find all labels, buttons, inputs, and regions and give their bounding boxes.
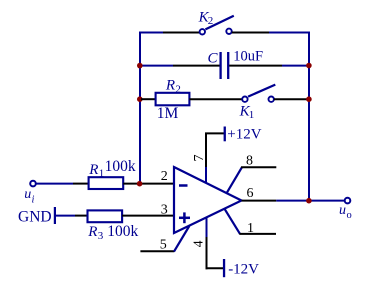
pin 6 output wire <box>242 200 345 202</box>
resistor R3 <box>88 210 123 222</box>
svg-text:i: i <box>32 195 35 206</box>
label 100k R3 <box>107 223 138 240</box>
op-amp plus sign <box>179 212 190 223</box>
pin 7 label <box>192 155 207 162</box>
pin 4 wire <box>206 217 224 269</box>
resistor R2 <box>156 93 190 106</box>
svg-text:5: 5 <box>160 238 167 253</box>
ground bar <box>54 207 56 224</box>
svg-text:1M: 1M <box>157 105 179 122</box>
wire: R2 to K1 <box>189 98 242 100</box>
svg-text:3: 3 <box>98 230 104 242</box>
op-amp U1 triangle <box>174 167 242 233</box>
svg-text:C: C <box>208 51 219 67</box>
terminal uo <box>345 198 351 204</box>
capacitor C <box>221 52 229 79</box>
svg-text:GND: GND <box>18 208 52 225</box>
svg-text:R: R <box>87 224 97 240</box>
label K2 <box>198 9 214 27</box>
label uo <box>339 203 352 221</box>
label 10uF <box>233 49 263 65</box>
label R2 <box>165 78 181 96</box>
svg-text:4: 4 <box>190 240 205 247</box>
label 100k R1 <box>105 158 136 175</box>
wire: capacitor row right segment <box>229 65 309 67</box>
svg-text:+12V: +12V <box>227 127 261 143</box>
svg-text:100k: 100k <box>105 158 136 175</box>
node: junction left-capacitor <box>137 63 143 69</box>
node: junction right-R2K1 <box>306 96 312 102</box>
power +12V bar <box>224 127 226 142</box>
wire: left vertical feedback branch <box>139 32 141 185</box>
svg-text:2: 2 <box>175 84 181 96</box>
wire: R1 to op-amp pin2 <box>123 183 174 185</box>
pin 5 label <box>160 238 167 253</box>
pin 2 label <box>161 169 168 184</box>
svg-text:o: o <box>347 210 352 221</box>
wire: right vertical feedback branch <box>308 32 310 202</box>
pin 5 wire <box>140 226 189 252</box>
op-amp minus sign <box>179 184 188 187</box>
wire: ui to R1 <box>36 183 89 185</box>
label -12V <box>228 262 259 278</box>
svg-text:1: 1 <box>247 221 254 236</box>
label ui <box>24 187 34 205</box>
pin 6 label <box>247 186 254 201</box>
svg-text:R: R <box>88 162 98 178</box>
node: junction summing point <box>137 181 143 187</box>
label K1 <box>239 103 255 121</box>
label 1M <box>157 105 179 122</box>
wire: left to R2 <box>141 98 156 100</box>
svg-text:1: 1 <box>249 109 255 121</box>
pin 8 wire <box>226 167 276 194</box>
resistor R1 <box>89 177 124 189</box>
svg-text:u: u <box>24 187 31 202</box>
node: junction output <box>306 198 312 204</box>
pin 1 label <box>247 221 254 236</box>
pin 8 label <box>246 154 253 169</box>
svg-text:3: 3 <box>161 203 168 218</box>
label +12V <box>227 127 261 143</box>
pin 3 label <box>161 203 168 218</box>
pin 1 wire <box>225 209 276 234</box>
wire: top row right segment <box>232 32 310 34</box>
svg-text:R: R <box>165 78 175 94</box>
svg-text:u: u <box>339 203 346 218</box>
switch K2 <box>200 16 234 35</box>
label GND <box>18 208 52 225</box>
wire: R3 to op-amp pin3 <box>122 215 174 217</box>
label R3 <box>87 224 104 242</box>
node: junction left-R2 <box>137 96 143 102</box>
svg-text:1: 1 <box>99 168 105 180</box>
pin 7 wire <box>205 133 224 184</box>
label R1 <box>88 162 104 180</box>
node: junction right-capacitor <box>306 63 312 69</box>
svg-text:100k: 100k <box>107 223 138 240</box>
power -12V bar <box>223 259 225 277</box>
wire: K1 to right branch <box>274 98 309 100</box>
terminal ui <box>30 181 36 187</box>
svg-text:6: 6 <box>247 186 254 201</box>
svg-text:8: 8 <box>246 154 253 169</box>
label C <box>208 51 219 67</box>
wire: capacitor row left segment <box>140 65 220 67</box>
pin 4 label <box>190 240 205 247</box>
svg-text:7: 7 <box>192 155 207 162</box>
switch K1 <box>242 85 275 102</box>
svg-text:2: 2 <box>161 169 168 184</box>
wire: GND to R3 <box>56 215 88 217</box>
svg-text:10uF: 10uF <box>233 49 263 65</box>
svg-text:-12V: -12V <box>228 262 259 278</box>
svg-text:2: 2 <box>208 15 214 27</box>
wire: top row left segment <box>139 32 200 34</box>
